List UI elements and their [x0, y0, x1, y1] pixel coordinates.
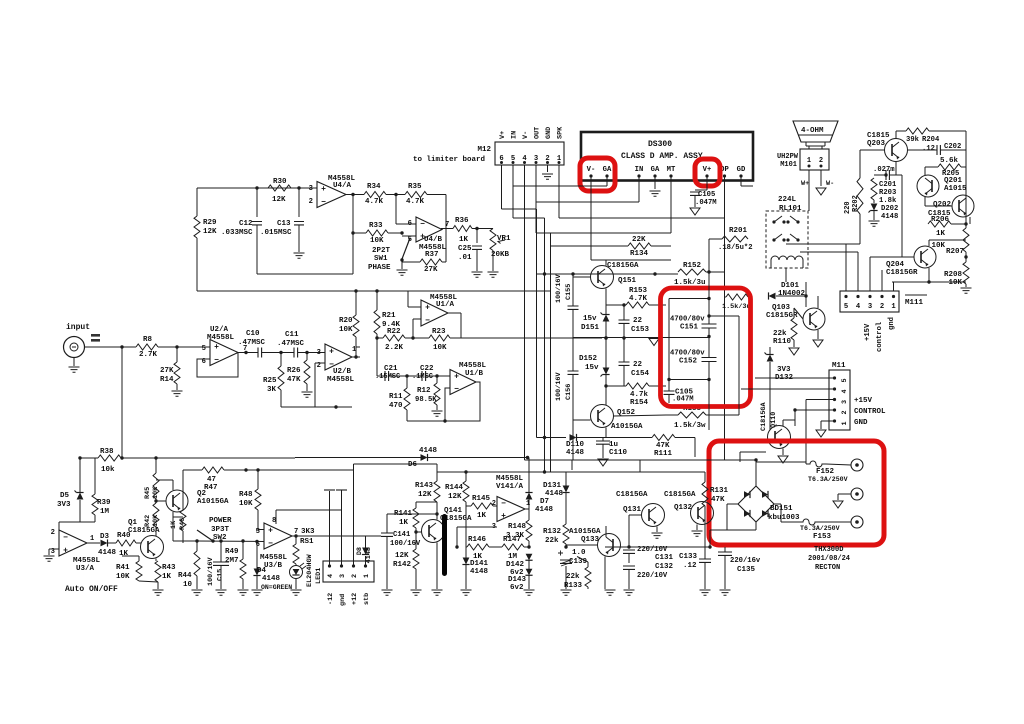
resistor R145: [471, 503, 493, 509]
node r141 mid: [414, 530, 417, 533]
wire R51 bot: [295, 564, 297, 566]
svg-text:1: 1: [891, 303, 896, 311]
svg-text:C1815GR: C1815GR: [886, 269, 918, 277]
svg-text:Q141: Q141: [444, 507, 463, 515]
svg-text:D6: D6: [408, 461, 418, 469]
svg-text:R152: R152: [683, 262, 702, 270]
switch SW1: [402, 238, 410, 259]
svg-text:+15V: +15V: [854, 397, 873, 405]
resistor R23: [429, 335, 450, 341]
svg-text:R144: R144: [445, 484, 464, 492]
svg-text:1u: 1u: [609, 441, 618, 449]
ground Q132: [692, 531, 703, 536]
wire C22 out: [426, 375, 451, 377]
relay contact dot 1a: [796, 220, 799, 223]
ground C13: [294, 253, 305, 258]
wire D6 row: [295, 457, 421, 459]
svg-text:10K: 10K: [433, 344, 447, 352]
svg-text:C1815GA: C1815GA: [760, 402, 768, 431]
capacitor C155: [568, 306, 579, 309]
node U2/A out: [244, 351, 247, 354]
svg-text:R47: R47: [204, 484, 218, 492]
svg-text:.12: .12: [683, 562, 697, 570]
wire u3b-d8 row: [330, 535, 366, 537]
svg-text:U1/A: U1/A: [436, 301, 455, 309]
svg-text:1K: 1K: [162, 573, 172, 581]
wire R21 bot: [376, 334, 378, 338]
wire relay down: [785, 268, 787, 282]
svg-text:98.5K: 98.5K: [415, 396, 437, 404]
relay RL101 dashed box: [766, 211, 808, 268]
wire D143 bot: [528, 576, 530, 590]
wire DS300 GA1 down: [606, 176, 608, 186]
wire C21 row: [377, 375, 385, 377]
svg-text:A1015GA: A1015GA: [197, 498, 229, 506]
svg-text:47: 47: [207, 476, 216, 484]
wire U2/A feedback: [197, 353, 238, 378]
svg-text:2001/08/24: 2001/08/24: [808, 555, 850, 563]
zener D152: [603, 368, 610, 375]
svg-text:stb: stb: [363, 593, 371, 605]
wire R133 h: [577, 557, 588, 563]
wire R151 left stub: [725, 296, 727, 298]
capacitor C132: [623, 566, 635, 569]
relay contact dot 0b: [782, 220, 785, 223]
ground Q131: [652, 533, 663, 538]
ground C105: [690, 208, 700, 215]
highlight box V- GA: [580, 158, 615, 191]
capacitor C156: [568, 371, 579, 374]
svg-text:2: 2: [880, 303, 884, 311]
relay contact dot 0a: [772, 220, 775, 223]
svg-text:−: −: [420, 220, 425, 229]
wire R143 col top: [436, 472, 438, 481]
svg-text:C1815GA: C1815GA: [607, 262, 639, 270]
wire M111 p3 up: [869, 262, 871, 291]
node r146/r147: [455, 545, 458, 548]
wire Q2 em row: [156, 479, 173, 481]
svg-text:.027m: .027m: [873, 166, 895, 174]
wire pin6 stub: [396, 223, 416, 225]
wire R39 down: [94, 515, 96, 522]
svg-text:−: −: [63, 533, 68, 542]
node 709 top: [707, 297, 710, 300]
wire R25 down: [280, 390, 282, 407]
relay contact dot 2a: [772, 238, 775, 241]
node R21/R22: [375, 336, 378, 339]
svg-text:U2/A: U2/A: [210, 326, 229, 334]
wire R144 top: [465, 472, 467, 481]
wire u1a stub v: [407, 291, 409, 307]
wire R110 base: [794, 308, 803, 319]
resistor R14: [174, 362, 180, 384]
node fb bottom: [443, 419, 446, 422]
wire D141 bot: [465, 565, 467, 590]
zener D5: [77, 493, 84, 500]
node R26 top: [305, 351, 308, 354]
wire R204 right: [929, 130, 966, 132]
node D152 bot: [604, 384, 607, 387]
svg-text:R201: R201: [729, 227, 748, 235]
wire fb down to pin6: [395, 195, 397, 225]
wire u141 pin3: [457, 526, 497, 528]
wire Q1 emitter: [155, 559, 157, 562]
wire input down col: [121, 347, 123, 458]
svg-text:C12: C12: [239, 220, 253, 228]
node C201: [884, 173, 887, 176]
svg-text:D142: D142: [506, 561, 525, 569]
ground T2: [833, 501, 843, 508]
node R30 right: [297, 186, 300, 189]
capacitor C141: [381, 533, 393, 536]
resistor R30: [268, 185, 291, 191]
switch SW2: [197, 530, 213, 541]
svg-text:POWER: POWER: [209, 517, 232, 525]
capacitor C105: [690, 192, 700, 195]
input small marks: [91, 334, 100, 337]
svg-text:.047M: .047M: [672, 396, 694, 404]
wire M101 p2 down: [820, 170, 822, 186]
wire R155 right: [706, 414, 739, 416]
svg-text:C132: C132: [655, 563, 674, 571]
M111 pin 5 dot: [844, 295, 847, 298]
wire R142 bot: [415, 569, 417, 589]
wire R154 left: [606, 385, 626, 387]
resistor R141: [413, 508, 419, 528]
wire R37 left: [402, 261, 420, 263]
resistor R44: [194, 551, 200, 576]
svg-text:1: 1: [526, 500, 530, 508]
wire R133 top: [587, 562, 589, 567]
capacitor C11: [294, 348, 298, 358]
ground C15: [216, 590, 227, 595]
ground C132: [624, 590, 635, 595]
relay switch blade 1: [790, 216, 798, 222]
svg-text:F153: F153: [813, 533, 832, 541]
wire R51 top: [295, 536, 297, 544]
terminal T2: [851, 488, 863, 500]
M11 pin 1 dot: [833, 419, 836, 422]
wire R36 right: [472, 228, 493, 230]
M11 pin 2 dot: [833, 408, 836, 411]
resistor R133: [585, 567, 591, 587]
svg-text:R48: R48: [239, 491, 253, 499]
DS300 pin GD dot: [739, 174, 742, 177]
svg-text:4: 4: [327, 574, 335, 578]
wire row y458 b: [294, 457, 296, 459]
svg-text:.47MSC: .47MSC: [238, 339, 266, 347]
ground D202: [869, 221, 880, 226]
svg-text:U4/A: U4/A: [333, 182, 352, 190]
DS300 pin V+ dot: [705, 174, 708, 177]
M111 pin 2 dot: [880, 295, 883, 298]
resistor R42: [153, 503, 159, 527]
svg-text:4: 4: [841, 389, 849, 393]
M12 pin 6 dot: [500, 161, 503, 164]
node midrow a: [604, 336, 607, 339]
wire U1/B feedback: [445, 382, 480, 421]
svg-text:GA: GA: [651, 166, 660, 174]
op-amp U3/B: [264, 523, 292, 549]
resistor R111: [652, 435, 675, 441]
ground R110: [789, 348, 799, 355]
capacitor C10: [258, 348, 262, 358]
svg-text:10K: 10K: [116, 573, 130, 581]
wire R45 top: [155, 458, 157, 473]
wire R26 gnd: [306, 384, 308, 391]
wire U3B out: [292, 535, 381, 537]
node R25 top: [279, 351, 282, 354]
resistor R155: [678, 412, 706, 418]
wire C141 top: [386, 514, 388, 533]
resistor R148: [526, 520, 532, 541]
svg-text:C141: C141: [393, 531, 411, 539]
wire R26 stub: [306, 353, 308, 361]
M101 pin2 dot: [820, 165, 823, 168]
wire R201 left stub: [709, 238, 722, 240]
svg-text:2: 2: [819, 157, 823, 165]
wire Q204 base col: [901, 175, 903, 257]
wire C153 up: [623, 305, 625, 320]
svg-text:2: 2: [309, 198, 313, 206]
svg-text:M4558L: M4558L: [327, 376, 355, 384]
svg-text:C1815GA: C1815GA: [664, 491, 696, 499]
wire M111 p2 up: [881, 270, 883, 291]
svg-text:.033MSC: .033MSC: [221, 229, 253, 237]
svg-text:1.8k: 1.8k: [879, 197, 897, 205]
svg-text:D5: D5: [60, 492, 70, 500]
wire R47 right: [224, 469, 246, 471]
wire Q203 base row: [860, 149, 884, 151]
wire C25 gnd: [476, 250, 478, 271]
node rail/153: [653, 272, 656, 275]
svg-text:OUT: OUT: [534, 127, 542, 139]
wire V+ jog: [695, 189, 707, 191]
transistor Q133: [598, 534, 621, 557]
wire M11 p3 down: [805, 400, 807, 463]
module DS300 outline: [581, 132, 753, 181]
bridge diode c: [744, 510, 750, 517]
svg-text:22: 22: [633, 317, 643, 325]
svg-text:RECTON: RECTON: [815, 564, 840, 572]
wire R29 bottom: [196, 238, 198, 291]
wire u1a fb v: [412, 319, 414, 338]
svg-text:100/16V: 100/16V: [555, 372, 563, 401]
svg-text:V+: V+: [499, 131, 507, 139]
wire T2 left: [838, 493, 851, 495]
ground C110: [598, 459, 608, 466]
svg-text:D141: D141: [470, 560, 489, 568]
wire DS300 V- down: [590, 176, 592, 260]
svg-text:C10: C10: [246, 330, 260, 338]
wire Q204 c to R207: [929, 239, 966, 241]
svg-text:4148: 4148: [535, 506, 554, 514]
wire F153 right: [819, 521, 851, 523]
wire C139 bot: [565, 566, 567, 589]
diode D8: [362, 548, 369, 555]
node U2/B out: [354, 355, 357, 358]
svg-text:+: +: [329, 347, 334, 356]
transistor Q152: [591, 405, 614, 428]
wire R12 gnd: [436, 405, 438, 410]
wire C154 down: [623, 366, 625, 387]
wire Q152 up: [605, 386, 607, 405]
wire Q203 collector: [895, 131, 897, 139]
node em/rail: [927, 280, 930, 283]
wire bus v 536: [536, 209, 538, 438]
wire q2 col down: [172, 517, 174, 541]
wire spk to M101 a: [808, 146, 810, 149]
svg-text:R33: R33: [369, 222, 383, 230]
M12 pin 4 dot: [523, 161, 526, 164]
wire mid rail y337: [461, 337, 602, 339]
wire GA1 left: [513, 185, 607, 187]
node rail/q151: [571, 272, 574, 275]
svg-text:3K: 3K: [267, 386, 277, 394]
svg-text:R132: R132: [543, 528, 562, 536]
connector M101: [800, 149, 829, 170]
wire R37 right: [442, 261, 446, 263]
resistor R207: [963, 228, 969, 252]
svg-text:12K: 12K: [203, 228, 217, 236]
svg-text:R49: R49: [225, 548, 239, 556]
wire R8 to U2A: [158, 346, 210, 348]
wire D131 down: [565, 493, 567, 525]
wire R44 bot: [196, 576, 198, 589]
wire spk to M101 b: [821, 146, 823, 149]
svg-text:D7: D7: [540, 498, 549, 506]
node R21 top: [375, 289, 378, 292]
wire R146 right: [489, 546, 502, 548]
ground R43: [153, 590, 164, 595]
svg-text:M111: M111: [905, 299, 924, 307]
svg-text:4.7K: 4.7K: [365, 198, 384, 206]
wire R49 top: [242, 541, 244, 559]
svg-text:2.7K: 2.7K: [139, 351, 158, 359]
relay switch blade 2: [774, 234, 782, 240]
svg-text:A1015: A1015: [944, 185, 967, 193]
svg-text:M4558L: M4558L: [459, 362, 487, 370]
svg-text:C11: C11: [285, 331, 299, 339]
svg-text:R37: R37: [425, 251, 439, 259]
DS300 pin MT dot: [669, 174, 672, 177]
resistor R201: [722, 236, 748, 242]
svg-text:3: 3: [317, 349, 321, 357]
capacitor C22: [422, 371, 426, 381]
svg-text:2: 2: [841, 410, 849, 414]
svg-text:2M7: 2M7: [225, 557, 239, 565]
wire Q2 base: [156, 500, 166, 502]
svg-text:10K: 10K: [239, 500, 253, 508]
wire R35 to out col: [445, 195, 447, 229]
capacitor C154: [619, 362, 630, 365]
svg-text:3: 3: [339, 574, 347, 578]
wire C131-C132: [628, 554, 630, 564]
diode D101: [769, 293, 776, 300]
wire sw2 row left: [173, 540, 197, 542]
svg-text:R153: R153: [629, 287, 648, 295]
svg-text:.01: .01: [458, 254, 472, 262]
wire Q131 gnd stem: [656, 527, 658, 533]
wire C15 top: [220, 541, 222, 562]
resistor R40: [116, 540, 136, 546]
wire F152 right: [826, 464, 851, 465]
wire C10-C11: [262, 352, 295, 354]
svg-text:4700/80v: 4700/80v: [670, 350, 705, 358]
wire Q2 emitter: [172, 480, 174, 490]
wire D152 up: [605, 338, 607, 368]
svg-text:R12: R12: [417, 387, 431, 395]
wire M111 p3 v: [869, 257, 871, 262]
svg-text:ON=GREEN: ON=GREEN: [261, 584, 292, 591]
capacitor C139 hatch: [561, 560, 571, 566]
wire q204 base left: [870, 256, 880, 258]
svg-text:47K: 47K: [287, 376, 301, 384]
wire C135 bot: [724, 556, 726, 590]
svg-text:22k: 22k: [545, 537, 559, 545]
resistor R134: [628, 243, 651, 249]
svg-text:1: 1: [841, 421, 849, 425]
transistor Q131: [642, 504, 665, 527]
M11 pin 4 dot: [833, 387, 836, 390]
node R152/v709: [707, 270, 710, 273]
capacitor C13: [294, 222, 304, 225]
wire R25 join: [281, 406, 352, 408]
ground C139: [561, 590, 572, 595]
svg-text:47K: 47K: [656, 442, 670, 450]
node R30 left: [255, 186, 258, 189]
svg-text:27K: 27K: [160, 367, 174, 375]
wire R38 right: [121, 457, 122, 459]
node q141 base: [435, 512, 438, 515]
wire y218 row: [559, 217, 725, 219]
wire C21-C22: [389, 375, 423, 377]
wire T2 stub: [837, 494, 839, 500]
diode D143: [526, 569, 533, 576]
wire row y510: [276, 509, 342, 511]
svg-text:Q202: Q202: [933, 201, 952, 209]
diode LED1 d: [293, 569, 300, 575]
svg-text:4148: 4148: [566, 449, 585, 457]
wire R20 top: [355, 291, 357, 315]
node r132 bot: [564, 545, 567, 548]
wire Q152 base stub: [573, 419, 591, 421]
svg-text:3: 3: [841, 400, 849, 404]
wire u1a fb: [413, 318, 421, 320]
wire D7 down: [528, 500, 530, 510]
wire Q203 emitter: [895, 162, 897, 175]
wire Q201 to R205: [925, 166, 938, 168]
wire R14 stub: [176, 347, 178, 362]
fuse F152: [806, 461, 826, 467]
wire R12 stub: [436, 376, 438, 383]
wire v709 b: [708, 328, 710, 358]
wire M11 p3 left: [806, 399, 835, 401]
ground DS300 GA2: [650, 191, 661, 196]
wire R40-Q1: [136, 542, 140, 544]
ground C135: [720, 590, 731, 595]
svg-text:4148: 4148: [98, 549, 117, 557]
wire C110 down: [602, 444, 604, 458]
svg-text:input: input: [66, 323, 90, 332]
wire Q1 collector: [155, 527, 157, 536]
wire CN p4 up: [329, 491, 331, 566]
svg-text:Q204: Q204: [886, 261, 905, 269]
wire bridge top: [755, 462, 757, 486]
wire R41 top: [138, 556, 140, 561]
wire M12 pin4 down: [524, 165, 526, 460]
wire M12 pin5 down: [512, 165, 514, 218]
